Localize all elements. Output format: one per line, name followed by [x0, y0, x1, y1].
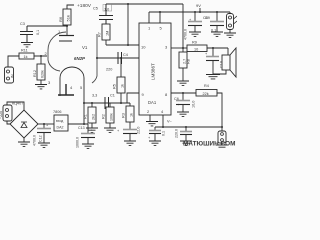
op-amp tube V1 envelope — [48, 32, 66, 71]
resistor R4 — [196, 84, 217, 96]
wire speaker return — [213, 70, 226, 74]
svg-text:51k: 51k — [66, 15, 71, 21]
node C10 — [212, 47, 214, 49]
svg-text:2,7: 2,7 — [183, 59, 187, 64]
svg-text:220,0: 220,0 — [175, 129, 179, 138]
connector mains — [0, 105, 12, 121]
svg-text:22,0: 22,0 — [137, 127, 141, 134]
resistor R3 — [122, 103, 135, 129]
wire pin2 ground — [149, 115, 151, 121]
wire bridge to DA2 — [38, 123, 54, 125]
resistor R7 — [98, 24, 111, 45]
svg-text:C3: C3 — [20, 22, 25, 26]
wire to pin 10 — [106, 44, 139, 46]
wire grid input — [34, 55, 47, 57]
svg-text:R6: R6 — [58, 16, 63, 22]
svg-text:10: 10 — [194, 48, 198, 52]
node output — [182, 47, 184, 49]
svg-text:10,0: 10,0 — [192, 101, 196, 108]
svg-text:1k: 1k — [130, 113, 134, 117]
wire bottom bus — [155, 126, 222, 128]
wire anode to C4 — [97, 57, 139, 59]
svg-text:1,0: 1,0 — [104, 8, 109, 12]
ground pin2 — [146, 122, 158, 126]
svg-text:C9: C9 — [205, 16, 210, 20]
svg-text:C1: C1 — [110, 94, 115, 98]
capacitor C5 — [93, 4, 113, 24]
svg-text:0,1: 0,1 — [162, 131, 166, 136]
capacitor C4 — [106, 52, 128, 72]
svg-text:1k: 1k — [121, 84, 125, 88]
capacitor C1 — [92, 94, 115, 110]
wire pin1 supply — [148, 12, 150, 23]
svg-text:10: 10 — [141, 45, 146, 50]
capacitor C12 — [33, 124, 52, 147]
wire +180V feed — [67, 5, 74, 10]
wire pin8 — [171, 92, 196, 94]
svg-text:22k: 22k — [203, 92, 209, 96]
svg-text:R11: R11 — [21, 49, 28, 53]
wire bootstrap down — [182, 4, 184, 48]
svg-text:R2: R2 — [102, 114, 106, 119]
svg-text:1k: 1k — [24, 55, 28, 59]
svg-text:R3: R3 — [122, 113, 126, 118]
node heater leg — [83, 102, 85, 104]
svg-text:LM386T: LM386T — [151, 63, 156, 80]
svg-text:DA2: DA2 — [57, 126, 64, 130]
resistor R9 — [187, 41, 207, 52]
svg-text:100k: 100k — [110, 113, 114, 121]
ground under C10 — [206, 75, 220, 79]
resistor R5 — [113, 57, 126, 103]
svg-text:1000,0: 1000,0 — [76, 137, 80, 148]
svg-text:2k2: 2k2 — [92, 114, 96, 120]
node R11/R12 — [40, 55, 42, 57]
capacitor C6 — [174, 93, 196, 112]
svg-text:КЦ407: КЦ407 — [12, 102, 23, 106]
svg-text:R12: R12 — [33, 70, 37, 77]
wire pin5 stub — [159, 12, 161, 23]
svg-text:МАТЮШИН.COM: МАТЮШИН.COM — [183, 141, 235, 148]
node envelope tap — [96, 57, 98, 59]
ground under C2 — [124, 141, 136, 145]
LED V4 — [227, 12, 238, 33]
wire cathode bus — [84, 102, 130, 104]
wire DA2 output — [68, 123, 88, 125]
svg-text:9V: 9V — [196, 3, 201, 8]
svg-text:R8: R8 — [187, 59, 191, 64]
node pin10 — [127, 44, 129, 46]
svg-text:вход: вход — [56, 119, 63, 123]
ground under R1 — [86, 128, 98, 132]
connector IN — [5, 67, 15, 83]
ground under C6 — [177, 112, 189, 116]
capacitor C14 — [148, 127, 166, 141]
capacitor C8 — [184, 11, 208, 40]
svg-text:C5: C5 — [93, 7, 98, 11]
wire rail to pin10 node — [127, 4, 129, 45]
svg-text:0,1: 0,1 — [36, 30, 40, 35]
node pin8 — [182, 92, 184, 94]
ground under C15 — [180, 141, 192, 145]
wire anode node — [27, 25, 67, 35]
resistor R6 — [58, 9, 71, 25]
capacitor C10 — [205, 48, 224, 74]
svg-text:+180V: +180V — [77, 3, 92, 9]
tube grid — [59, 40, 72, 42]
wire top rail (output/bootstrap) — [106, 3, 183, 5]
wire R4 down — [217, 93, 222, 127]
ground under R8 — [177, 81, 189, 85]
svg-text:1M: 1M — [106, 31, 110, 36]
tube anode — [59, 35, 74, 37]
ground under C13 — [82, 144, 94, 148]
tube cathode — [58, 84, 74, 95]
ground under C14 — [149, 141, 161, 145]
wire supply rail — [149, 11, 230, 13]
svg-text:IN: IN — [11, 74, 15, 78]
node anode junction — [66, 25, 68, 27]
resistor R11 — [19, 49, 34, 60]
ground under C8 — [189, 32, 201, 36]
svg-text:R1: R1 — [84, 114, 88, 119]
svg-text:~220: ~220 — [0, 111, 3, 119]
IC DA1 — [139, 23, 171, 115]
ground under XS2 — [216, 145, 228, 147]
svg-text:620k: 620k — [41, 70, 45, 78]
svg-text:R4: R4 — [204, 84, 209, 88]
wire to pin 9 — [127, 93, 139, 103]
svg-text:DA1: DA1 — [148, 100, 157, 105]
ground under R12 — [35, 85, 47, 89]
resistor R1 — [84, 103, 97, 128]
resistor R8 — [179, 48, 191, 81]
node rail/col — [127, 3, 129, 5]
svg-text:R7: R7 — [98, 32, 102, 37]
wire R9 to speaker — [207, 48, 228, 55]
capacitor C9 — [205, 11, 224, 33]
regulator DA2 7806 — [53, 110, 68, 131]
svg-text:C4: C4 — [123, 53, 128, 57]
wire mains to bridge — [7, 102, 24, 124]
svg-text:220: 220 — [106, 68, 112, 72]
ground under bridge — [18, 142, 30, 146]
svg-text:4700,0: 4700,0 — [33, 135, 37, 146]
svg-text:C12: C12 — [39, 135, 43, 142]
ground under C9 — [211, 32, 223, 36]
svg-text:V1: V1 — [82, 45, 88, 50]
resistor R12 — [33, 56, 45, 84]
node R1 top — [91, 102, 93, 104]
svg-text:C13: C13 — [78, 126, 85, 130]
capacitor C3 — [20, 22, 40, 42]
svg-text:R9: R9 — [192, 41, 197, 45]
ground under C3 — [21, 43, 33, 47]
svg-text:R5: R5 — [113, 84, 117, 89]
ground under R2 — [104, 128, 116, 132]
wire IN to R11 — [8, 56, 19, 67]
ground under LED — [224, 33, 236, 37]
wire bridge to ground — [23, 138, 25, 142]
speaker BA1 — [222, 48, 236, 77]
resistor R2 — [102, 103, 115, 128]
bridge rectifier VD1 — [10, 102, 38, 139]
wire R11 to grid — [34, 55, 47, 57]
capacitor C13 — [76, 124, 96, 148]
svg-text:7806: 7806 — [53, 110, 61, 114]
wire pin4 — [162, 115, 164, 127]
tube heater — [60, 67, 84, 124]
wire pin3 output — [171, 47, 187, 49]
svg-text:3,3: 3,3 — [92, 94, 97, 98]
svg-text:4700,0: 4700,0 — [184, 29, 188, 40]
svg-text:6N2P: 6N2P — [74, 56, 85, 61]
capacitor C15 — [175, 127, 193, 141]
connector XS2 — [218, 127, 226, 145]
capacitor C2 — [117, 127, 141, 141]
supply node 9V — [199, 8, 201, 12]
node R5 bottom — [120, 102, 122, 104]
ground under C12 — [38, 143, 50, 147]
